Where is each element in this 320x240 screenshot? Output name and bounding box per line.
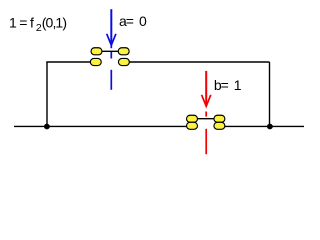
wire: left vertical — [46, 62, 48, 126]
control a: blue dashed line through switch A — [110, 45, 112, 48]
wire: switch A right lead to top-right corner — [129, 61, 270, 63]
control b: red dashed line through switch B — [205, 112, 207, 117]
svg-text:(0,1): (0,1) — [42, 14, 67, 30]
switch B: top bridge line — [196, 118, 216, 120]
wire: right vertical — [269, 62, 271, 126]
switch A contact bottom-right — [118, 58, 129, 65]
svg-text:0: 0 — [139, 13, 147, 29]
switch B contact top-left — [187, 115, 198, 122]
switch A contact top-right — [118, 48, 129, 55]
svg-text:1: 1 — [234, 77, 242, 93]
control b: red arrowhead — [202, 95, 211, 106]
switch A contact top-left — [91, 48, 102, 55]
control b: red arrow shaft — [202, 71, 211, 154]
svg-text:b=: b= — [214, 77, 229, 93]
switch A: top bridge line — [100, 50, 120, 52]
switch B contact bottom-left — [187, 122, 198, 129]
switch B contact top-right — [214, 115, 225, 122]
wire: bottom horizontal rail (left part) — [14, 125, 198, 127]
control a: blue arrowhead — [107, 34, 116, 45]
control a: blue arrow shaft — [107, 9, 116, 90]
wire: bottom horizontal rail (right part) — [214, 125, 304, 127]
formula label 1 = f2(0,1) — [9, 14, 66, 34]
svg-text:a=: a= — [119, 13, 134, 29]
svg-text:1 = f: 1 = f — [9, 14, 34, 30]
switch A contact bottom-left — [90, 58, 101, 65]
switch B contact bottom-right — [214, 122, 225, 129]
wire: switch A left lead — [46, 61, 90, 63]
junction dot right — [267, 124, 273, 130]
junction dot left — [44, 124, 50, 130]
